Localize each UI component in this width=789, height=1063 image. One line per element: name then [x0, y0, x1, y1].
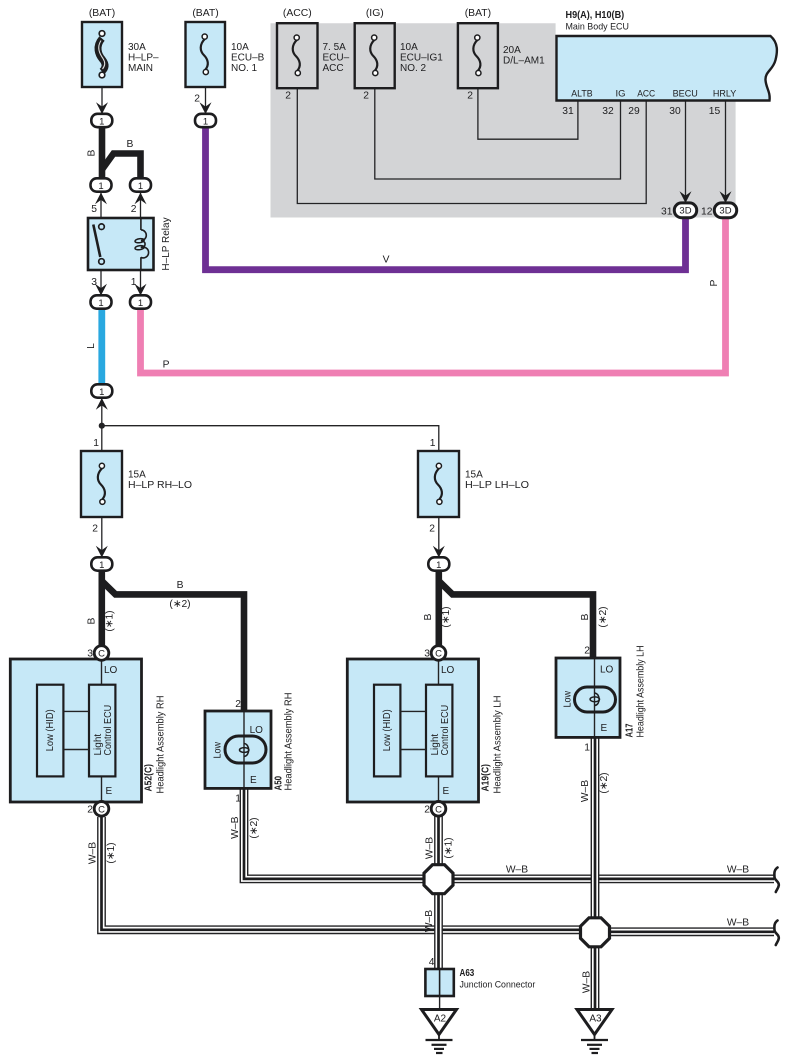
gray harness region	[271, 23, 736, 217]
wire W-B octagon2 to right break	[607, 927, 774, 936]
svg-text:(BAT): (BAT)	[192, 8, 218, 19]
W-B wires (white with black stripe)	[102, 738, 775, 1010]
svg-text:B: B	[86, 617, 97, 624]
svg-text:(∗2): (∗2)	[249, 817, 260, 838]
svg-text:W–B: W–B	[230, 816, 241, 838]
svg-text:E: E	[601, 723, 608, 734]
arrow into connector below RH-LO fuse	[96, 546, 108, 558]
svg-text:(∗1): (∗1)	[441, 606, 452, 627]
svg-text:Main Body ECU: Main Body ECU	[566, 22, 630, 33]
svg-text:W–B: W–B	[580, 780, 591, 802]
svg-text:1: 1	[430, 438, 436, 449]
svg-text:B: B	[177, 580, 184, 591]
connector 1 below blue wire	[91, 384, 112, 397]
svg-text:Low: Low	[562, 690, 573, 707]
svg-text:1: 1	[138, 181, 143, 192]
svg-text:3: 3	[91, 277, 97, 288]
Main Body ECU box	[557, 36, 777, 101]
arrow into connector below fuse2	[200, 102, 212, 114]
svg-text:W–B: W–B	[582, 971, 593, 993]
connector 1 above relay pin2	[130, 178, 151, 191]
svg-text:1: 1	[98, 298, 103, 309]
svg-text:1: 1	[138, 298, 143, 309]
svg-text:E: E	[106, 786, 113, 797]
svg-text:W–B: W–B	[424, 837, 435, 859]
arrow down into oval below relay pin1	[135, 284, 147, 296]
wire relay pin 3	[100, 270, 102, 296]
wire P pink HRLY feed	[141, 215, 726, 373]
ground A3	[577, 1010, 612, 1054]
svg-text:31: 31	[562, 106, 574, 117]
fuse 30A H-LP-MAIN	[82, 22, 122, 87]
svg-text:A2: A2	[434, 1014, 447, 1025]
svg-text:IG: IG	[615, 89, 625, 100]
wire fuse1 to connector	[101, 87, 103, 114]
svg-text:15: 15	[709, 106, 721, 117]
svg-text:3: 3	[87, 649, 93, 660]
svg-text:C: C	[435, 805, 442, 816]
headlight assembly LH A19(C)	[347, 659, 478, 802]
svg-text:W–B: W–B	[88, 842, 99, 864]
svg-text:(BAT): (BAT)	[465, 8, 491, 19]
svg-text:W–B: W–B	[506, 865, 528, 876]
svg-text:2: 2	[424, 805, 430, 816]
svg-text:H–LP Relay: H–LP Relay	[161, 217, 172, 270]
bulb symbol	[575, 687, 616, 712]
svg-text:3: 3	[424, 649, 430, 660]
wire relay pin 2	[140, 193, 142, 218]
oval connectors "1"	[91, 114, 737, 816]
svg-text:32: 32	[602, 106, 614, 117]
wire relay pin 1	[140, 270, 142, 296]
fuse 15A H-LP LH-LO	[418, 451, 459, 517]
wire D/L-AM1 fuse to ECU pin 31 ALTB	[478, 88, 578, 139]
svg-text:1: 1	[98, 181, 103, 192]
svg-text:Control ECU: Control ECU	[440, 705, 451, 756]
arrow into connector below fuse1	[96, 102, 108, 114]
wire W-B A52 ground run to octagon 2	[102, 817, 583, 930]
wire connector to fuse junction	[101, 398, 103, 426]
svg-text:29: 29	[628, 106, 640, 117]
break symbol right end of octagon2 line	[774, 921, 778, 946]
svg-text:2: 2	[467, 91, 473, 102]
svg-text:W–B: W–B	[727, 865, 749, 876]
svg-text:2: 2	[429, 524, 435, 535]
wire W-B octagon1 down to A63 junction connector	[434, 891, 443, 970]
svg-text:Low (HID): Low (HID)	[382, 709, 393, 751]
wire L blue relay output	[98, 307, 105, 386]
svg-text:H9(A), H10(B): H9(A), H10(B)	[566, 10, 625, 21]
wire ECU pin 15 HRLY to 3D connector	[725, 101, 727, 196]
svg-text:A19(C): A19(C)	[481, 764, 492, 792]
svg-text:2: 2	[87, 805, 93, 816]
arrow down into oval below relay pin3	[95, 284, 107, 296]
svg-text:P: P	[163, 360, 170, 371]
svg-text:Headlight Assembly LH: Headlight Assembly LH	[493, 696, 504, 794]
wire junction branch to both low-beam fuses	[102, 426, 439, 451]
svg-text:2: 2	[194, 94, 200, 105]
arrow into 3D connector HRLY	[720, 191, 732, 203]
junction connector A63	[425, 969, 453, 1010]
connector 3D BECU	[674, 203, 696, 218]
svg-text:2: 2	[235, 699, 241, 710]
svg-text:1: 1	[436, 560, 441, 571]
connector 1 below fuse1	[91, 114, 112, 127]
break symbol right end of octagon1 line	[774, 868, 778, 893]
svg-text:(∗2): (∗2)	[169, 599, 190, 610]
svg-text:2: 2	[285, 91, 291, 102]
wire RH-LO fuse to connector	[101, 517, 103, 557]
svg-text:(BAT): (BAT)	[89, 8, 115, 19]
svg-text:ALTB: ALTB	[571, 89, 592, 100]
arrows	[95, 102, 732, 557]
connector 1 below relay pin1	[130, 295, 151, 308]
svg-text:A3: A3	[589, 1014, 602, 1025]
svg-text:C: C	[98, 649, 105, 660]
wire W-B A17 down to octagon 2	[591, 738, 600, 920]
svg-text:LO: LO	[104, 665, 118, 676]
svg-text:(∗1): (∗1)	[443, 837, 454, 858]
fuse 10A ECU-IG1 NO.2	[355, 23, 395, 88]
svg-text:B: B	[127, 139, 134, 150]
svg-text:1: 1	[235, 794, 241, 805]
wire color labels	[45, 139, 749, 1025]
svg-text:C: C	[435, 649, 442, 660]
svg-text:1: 1	[93, 438, 99, 449]
svg-text:1: 1	[584, 743, 590, 754]
wire fuse2 to connector	[205, 87, 207, 114]
arrow up into right oval above relay pin2	[135, 193, 147, 205]
svg-text:(ACC): (ACC)	[283, 8, 312, 19]
connector 1 below LH-LO fuse	[428, 557, 449, 570]
svg-text:2: 2	[363, 91, 369, 102]
svg-text:2: 2	[92, 524, 98, 535]
svg-text:V: V	[383, 255, 390, 266]
svg-text:P: P	[709, 279, 720, 286]
wire LH-LO fuse to connector	[438, 517, 440, 557]
svg-text:LO: LO	[600, 665, 614, 676]
connector C A19 pin3	[431, 646, 446, 661]
wire B thick battery feed with branch	[102, 125, 593, 713]
arrow up into left oval above relay pin5	[95, 193, 107, 205]
wire W-B octagon2 down to ground A3	[591, 944, 600, 1010]
svg-text:Junction Connector: Junction Connector	[460, 980, 536, 991]
connector 3D HRLY	[714, 203, 736, 218]
svg-text:Low: Low	[212, 741, 223, 758]
junction octagon 1	[424, 865, 453, 894]
svg-text:(∗1): (∗1)	[106, 842, 117, 863]
svg-text:2: 2	[584, 646, 590, 657]
svg-text:4: 4	[429, 957, 435, 968]
wire ACC fuse to ECU pin 29	[297, 88, 646, 204]
svg-text:(∗2): (∗2)	[599, 772, 610, 793]
svg-text:2: 2	[131, 204, 137, 215]
fuse 10A ECU-B NO.1	[186, 22, 226, 87]
ground A2	[422, 1010, 457, 1054]
svg-text:A63: A63	[460, 968, 475, 979]
wire relay pin 5	[100, 193, 102, 218]
fuse 15A H-LP RH-LO	[81, 451, 122, 517]
svg-text:1: 1	[203, 116, 208, 127]
svg-text:5: 5	[91, 204, 97, 215]
svg-text:Light: Light	[430, 734, 441, 756]
connector C A52 pin2	[94, 802, 109, 817]
svg-text:Light: Light	[93, 734, 104, 756]
svg-text:Headlight Assembly RH: Headlight Assembly RH	[156, 696, 167, 794]
svg-text:LO: LO	[441, 665, 455, 676]
svg-text:B: B	[86, 149, 97, 156]
svg-text:LO: LO	[250, 725, 264, 736]
connector 1 below relay pin3	[91, 295, 112, 308]
wire W-B A50 ground run to octagon 1	[244, 789, 426, 879]
arrow into 3D connector BECU	[680, 191, 692, 203]
arrow into connector below LH-LO fuse	[433, 546, 445, 558]
svg-text:A17: A17	[625, 724, 636, 738]
svg-text:Headlight Assembly RH: Headlight Assembly RH	[284, 693, 295, 791]
svg-text:1: 1	[99, 116, 104, 127]
wire W-B A19 to octagon 1	[434, 814, 443, 867]
svg-text:Low (HID): Low (HID)	[45, 709, 56, 751]
svg-text:30: 30	[669, 106, 681, 117]
svg-text:3D: 3D	[679, 206, 691, 217]
fuse 20A D/L-AM1	[458, 23, 498, 88]
relay coil	[140, 218, 142, 230]
svg-text:ACC: ACC	[637, 89, 655, 100]
svg-text:(IG): (IG)	[366, 8, 384, 19]
connector C A19 pin2	[431, 802, 446, 817]
svg-text:A52(C): A52(C)	[144, 764, 155, 792]
svg-text:E: E	[443, 786, 450, 797]
svg-text:Control ECU: Control ECU	[103, 705, 114, 756]
bulb symbol	[225, 736, 266, 763]
svg-text:1: 1	[131, 277, 137, 288]
svg-text:L: L	[86, 343, 97, 349]
svg-text:C: C	[98, 805, 105, 816]
wire B thick RH low-beam branch	[99, 570, 106, 648]
svg-text:BECU: BECU	[673, 89, 698, 100]
svg-text:B: B	[580, 613, 591, 620]
connector 1 below fuse2	[195, 114, 216, 127]
svg-text:1: 1	[99, 387, 104, 398]
svg-text:W–B: W–B	[727, 918, 749, 929]
svg-text:31: 31	[661, 206, 673, 217]
svg-text:12: 12	[701, 206, 713, 217]
svg-text:(∗1): (∗1)	[104, 610, 115, 631]
svg-text:W–B: W–B	[424, 910, 435, 932]
connector C A52 pin3	[94, 646, 109, 661]
svg-text:B: B	[423, 613, 434, 620]
wire B thick LH low-beam branch	[435, 570, 442, 648]
connector 1 above relay pin5	[91, 178, 112, 191]
svg-text:3D: 3D	[719, 206, 731, 217]
arrow up into oval below blue wire	[96, 398, 108, 410]
headlight assembly LH A17 (bulb)	[556, 658, 620, 737]
headlight assembly RH A50 (bulb)	[205, 711, 271, 788]
svg-text:Headlight Assembly LH: Headlight Assembly LH	[636, 646, 647, 738]
wire V purple BECU feed	[206, 125, 686, 270]
junction octagon 2	[581, 918, 610, 947]
connector 1 below RH-LO fuse	[91, 557, 112, 570]
wire W-B octagon1 to right break	[451, 875, 774, 884]
headlight assembly RH A52(C)	[10, 659, 141, 802]
H-LP relay box	[88, 218, 154, 270]
fuse 7.5A ECU-ACC	[277, 23, 318, 88]
wire IG fuse to ECU pin 32	[375, 88, 621, 179]
svg-text:(∗2): (∗2)	[598, 606, 609, 627]
junction dot	[99, 423, 105, 429]
svg-text:E: E	[250, 775, 257, 786]
svg-text:1: 1	[99, 560, 104, 571]
svg-text:HRLY: HRLY	[713, 89, 737, 100]
relay switch	[93, 225, 100, 258]
wire ECU pin 30 BECU to 3D connector	[685, 101, 687, 196]
